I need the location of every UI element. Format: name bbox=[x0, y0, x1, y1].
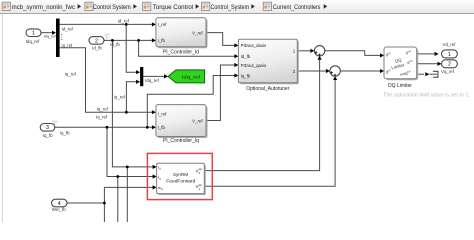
svg-text:Id_fb: Id_fb bbox=[110, 42, 120, 47]
svg-text:Id_fb: Id_fb bbox=[92, 45, 102, 50]
svg-text:PIDout_qaxis: PIDout_qaxis bbox=[241, 63, 267, 68]
svg-text:I_ref: I_ref bbox=[158, 22, 168, 27]
svg-text:Vq_ref: Vq_ref bbox=[441, 69, 455, 74]
svg-text:I_fb: I_fb bbox=[158, 38, 166, 43]
svg-text:Iq_ref: Iq_ref bbox=[62, 43, 74, 48]
svg-text:1: 1 bbox=[32, 31, 35, 37]
svg-text:Torque Control: Torque Control bbox=[153, 4, 194, 11]
svg-text:V_ref: V_ref bbox=[192, 31, 203, 36]
svg-text:Id_fb: Id_fb bbox=[241, 54, 251, 59]
svg-text:PI_Controller_Id: PI_Controller_Id bbox=[163, 50, 199, 56]
svg-text:Id_ref: Id_ref bbox=[62, 27, 74, 32]
svg-text:Iq_ref: Iq_ref bbox=[65, 71, 77, 76]
svg-text:Vd_ref: Vd_ref bbox=[443, 42, 457, 47]
svg-text:The saturation limit value is: The saturation limit value is set to 1. bbox=[383, 93, 470, 99]
svg-text:Iq_fb: Iq_fb bbox=[60, 130, 70, 135]
svg-text:DQ Limiter: DQ Limiter bbox=[388, 83, 412, 89]
svg-text:FeedForward: FeedForward bbox=[166, 178, 195, 183]
svg-text:Current_Controllers: Current_Controllers bbox=[273, 4, 321, 11]
svg-text:2: 2 bbox=[95, 38, 98, 44]
svg-text:1: 1 bbox=[448, 52, 451, 58]
svg-text:3: 3 bbox=[46, 125, 49, 131]
svg-text:Optional_Autotuner: Optional_Autotuner bbox=[246, 86, 289, 92]
svg-text:Idq_ref: Idq_ref bbox=[182, 75, 201, 80]
svg-text:Id_ref: Id_ref bbox=[118, 19, 130, 24]
svg-text:2: 2 bbox=[448, 62, 451, 68]
svg-text:mcb_synrm_nonlin_fwc: mcb_synrm_nonlin_fwc bbox=[12, 4, 75, 11]
svg-text:Iq_ref: Iq_ref bbox=[97, 106, 109, 111]
svg-text:Iq_fb: Iq_fb bbox=[43, 133, 53, 138]
svg-text:Idq_ref: Idq_ref bbox=[44, 34, 57, 38]
svg-text:Control_System: Control_System bbox=[211, 4, 250, 11]
svg-text:Idq_ref: Idq_ref bbox=[26, 39, 40, 44]
svg-text:PI_Controller_Iq: PI_Controller_Iq bbox=[163, 138, 199, 144]
svg-text:SynRM: SynRM bbox=[173, 172, 188, 177]
svg-text:Iq_ref: Iq_ref bbox=[96, 115, 108, 120]
svg-text:4: 4 bbox=[58, 201, 61, 207]
svg-text:Iq_ref: Iq_ref bbox=[114, 94, 126, 99]
svg-text:Control System: Control System bbox=[93, 4, 131, 11]
svg-text:I_fb: I_fb bbox=[158, 125, 166, 130]
svg-text:PIDout_daxis: PIDout_daxis bbox=[241, 43, 267, 48]
svg-text:Wm_fb: Wm_fb bbox=[52, 207, 66, 212]
svg-text:V_ref: V_ref bbox=[192, 118, 203, 123]
svg-text:Iq_fb: Iq_fb bbox=[241, 73, 251, 78]
svg-text:Idq_ref: Idq_ref bbox=[145, 78, 159, 83]
svg-text:I_ref: I_ref bbox=[158, 112, 168, 117]
